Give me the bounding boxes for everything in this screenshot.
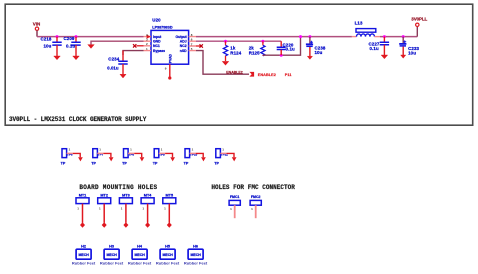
capacitor C227 0.1u <box>369 37 390 55</box>
ground below C233 <box>401 55 406 58</box>
svg-text:FMC2: FMC2 <box>251 195 261 199</box>
svg-text:ADJ: ADJ <box>180 40 187 44</box>
FMC hole FMC2 <box>250 195 261 218</box>
svg-text:TP: TP <box>61 162 66 166</box>
svg-text:Rubber Feet: Rubber Feet <box>156 260 180 265</box>
svg-text:H2: H2 <box>81 245 86 249</box>
svg-text:R125: R125 <box>249 50 260 55</box>
ground below C234 <box>120 74 126 78</box>
U20 pin stubs right <box>189 37 196 51</box>
wire Bypass pin to C234 <box>123 51 144 55</box>
junction feedback on bus <box>299 35 302 38</box>
svg-text:3V0PLL - LMX2531 CLOCK GENERAT: 3V0PLL - LMX2531 CLOCK GENERATOR SUPPLY <box>9 116 147 123</box>
capacitor C233 10u polarized <box>399 37 419 56</box>
svg-text:Rubber Feet: Rubber Feet <box>184 260 208 265</box>
svg-text:GND: GND <box>153 40 161 44</box>
svg-text:H6: H6 <box>193 245 198 249</box>
capacitor C238 10u polarized <box>306 37 326 57</box>
svg-text:MT4: MT4 <box>144 193 152 197</box>
ground below C209 <box>73 56 80 60</box>
rubber foot H3 <box>100 245 124 266</box>
svg-text:MT2: MT2 <box>100 193 108 197</box>
ground below R124 <box>222 61 229 65</box>
wire GND pin to ground <box>91 41 144 44</box>
svg-text:MT1: MT1 <box>79 193 87 197</box>
mounting hole MT5 <box>163 193 176 227</box>
svg-text:TP: TP <box>91 162 96 166</box>
mounting hole MT3 <box>119 193 132 227</box>
svg-text:C209: C209 <box>64 36 75 41</box>
svg-text:HOLES FOR FMC CONNECTOR: HOLES FOR FMC CONNECTOR <box>211 184 295 191</box>
svg-text:NC2: NC2 <box>180 44 187 48</box>
junction C227 <box>383 35 386 38</box>
svg-text:Rubber Feet: Rubber Feet <box>72 260 96 265</box>
U20 PAD pin 9 to ground dot <box>165 64 172 79</box>
svg-text:C218: C218 <box>41 37 52 42</box>
wire output bus U20 to L13 <box>196 36 352 38</box>
junction R124 on ADJ line <box>224 40 227 43</box>
wire VIN vertical <box>36 30 38 36</box>
svg-text:C234: C234 <box>108 56 119 61</box>
test point TP11 <box>214 148 236 166</box>
off-page connector ENABLE2 P11 <box>249 72 291 77</box>
svg-text:MECH: MECH <box>106 253 117 257</box>
test point TP7 <box>91 148 113 166</box>
U20 pin numbers left 4 3 2 1 <box>146 33 148 51</box>
junction C238 on bus <box>308 35 311 38</box>
capacitor C220 0.1u <box>277 41 295 55</box>
FMC hole FMC1 <box>229 195 240 218</box>
ground at U20 GND pin <box>88 45 95 49</box>
U20 pin stubs left <box>144 35 152 51</box>
rubber foot H2 <box>72 245 96 266</box>
mounting hole MT4 <box>141 193 154 227</box>
svg-text:BOARD MOUNTING HOLES: BOARD MOUNTING HOLES <box>79 184 157 191</box>
svg-text:ENABLE2: ENABLE2 <box>226 71 242 75</box>
svg-text:MECH: MECH <box>78 253 89 257</box>
svg-text:0.1u: 0.1u <box>370 46 379 51</box>
svg-text:Bypass: Bypass <box>153 49 165 53</box>
svg-text:PVAD: PVAD <box>169 53 173 63</box>
test point TP8 <box>122 148 144 166</box>
svg-text:Rubber Feet: Rubber Feet <box>100 260 124 265</box>
port VIN <box>33 22 40 31</box>
svg-text:H5: H5 <box>165 245 170 249</box>
ground below C227 <box>381 55 388 59</box>
svg-text:P11: P11 <box>285 73 292 77</box>
no-connect X at NC1 <box>133 44 144 47</box>
svg-text:10u: 10u <box>44 43 52 48</box>
svg-text:Output: Output <box>175 35 187 39</box>
svg-text:MECH: MECH <box>134 253 145 257</box>
svg-text:H3: H3 <box>109 245 114 249</box>
mounting hole MT1 <box>76 193 89 227</box>
svg-text:3V0PLL: 3V0PLL <box>411 17 427 22</box>
mounting hole MT2 <box>98 193 111 227</box>
rubber foot H5 <box>156 245 180 266</box>
inductor L13 ferrite bead <box>352 20 380 36</box>
svg-text:MECH: MECH <box>190 253 201 257</box>
resistor R124 1k <box>223 41 241 61</box>
wire main input bus VIN to U20 <box>37 36 144 38</box>
capacitor C218 10u <box>41 37 62 56</box>
svg-text:0.1u: 0.1u <box>66 44 75 49</box>
rubber foot H6 <box>184 245 208 266</box>
svg-text:L13: L13 <box>355 20 363 25</box>
svg-text:MECH: MECH <box>162 253 173 257</box>
test point TP10 <box>184 148 206 166</box>
svg-text:0.1u: 0.1u <box>286 47 295 52</box>
svg-text:TP: TP <box>184 162 189 166</box>
svg-text:Input: Input <box>153 35 162 39</box>
wire L13 to port <box>380 36 417 38</box>
junction at C218 <box>56 35 59 38</box>
svg-text:VIN: VIN <box>33 22 40 27</box>
svg-text:U20: U20 <box>152 18 161 23</box>
svg-text:TP: TP <box>214 162 219 166</box>
capacitor C234 0.01u <box>107 51 127 75</box>
svg-text:TP: TP <box>153 162 158 166</box>
svg-text:10u: 10u <box>315 50 323 55</box>
junction R125 on ADJ line <box>261 40 264 43</box>
rubber foot H4 <box>128 245 152 266</box>
U20 pin numbers right 8 6 7 5 <box>191 33 193 51</box>
svg-text:MT3: MT3 <box>122 193 130 197</box>
svg-text:FMC1: FMC1 <box>230 195 240 199</box>
svg-text:MT5: MT5 <box>165 193 173 197</box>
wire nSD to ENABLE2 <box>196 51 249 75</box>
svg-text:R124: R124 <box>230 50 241 55</box>
svg-text:TP: TP <box>122 162 127 166</box>
junction C220 bottom <box>280 54 283 57</box>
op-amp/regulator U20 LP38798SD <box>151 18 189 65</box>
svg-text:nSD: nSD <box>180 49 187 53</box>
resistor R125 2k <box>249 41 265 56</box>
svg-text:ENABLE2: ENABLE2 <box>258 73 276 77</box>
test point TP6 <box>61 148 83 166</box>
port 3V0PLL <box>411 17 427 27</box>
schematic frame border <box>5 4 473 125</box>
test point TP9 <box>153 148 175 166</box>
wire ADJ line <box>196 40 281 42</box>
svg-text:NC1: NC1 <box>153 44 160 48</box>
svg-text:LP38798SD: LP38798SD <box>152 25 173 29</box>
svg-text:Rubber Feet: Rubber Feet <box>128 260 152 265</box>
ground below C218 <box>54 56 61 60</box>
junction at C209 <box>75 35 78 38</box>
no-connect X at NC2 <box>196 44 203 47</box>
capacitor C209 0.1u <box>64 36 81 56</box>
junction C233 <box>402 35 405 38</box>
ground below C238 <box>307 56 312 59</box>
wire feedback bottom rail <box>263 37 301 56</box>
svg-text:0.01u: 0.01u <box>107 65 119 70</box>
svg-text:10u: 10u <box>408 51 416 56</box>
